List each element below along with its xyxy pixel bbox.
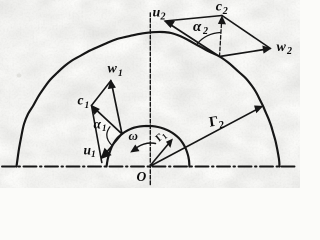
label r1 rotated	[154, 129, 169, 145]
svg-text:2: 2	[202, 26, 208, 37]
svg-text:1: 1	[91, 150, 96, 160]
wire u1 vector from P1 tangential	[106, 134, 123, 154]
svg-text:α: α	[94, 117, 102, 132]
radius arrow r1	[150, 143, 170, 167]
parallelogram edge A to B	[165, 16, 222, 22]
wire c1 vector diagonal P1 to L	[96, 109, 123, 134]
vertical dashed line through O	[149, 13, 151, 186]
svg-text:w: w	[108, 62, 118, 77]
svg-text:c: c	[216, 0, 223, 15]
svg-text:1: 1	[85, 101, 90, 111]
svg-text:α: α	[193, 19, 202, 35]
parallelogram edge B to C	[222, 16, 271, 49]
outer arc radius r2 circle	[17, 32, 280, 167]
svg-text:1: 1	[102, 123, 107, 133]
svg-text:1: 1	[118, 69, 123, 79]
svg-text:u: u	[153, 6, 161, 21]
svg-text:O: O	[137, 169, 147, 184]
parallelogram edge T to L	[92, 81, 112, 106]
wire w2 vector P2 to C	[220, 49, 266, 56]
wire w1 vector P1 to T	[112, 86, 122, 135]
horizontal dash-dot centerline axis	[2, 166, 297, 168]
inner arc radius r1 circle	[107, 126, 190, 167]
angle arc alpha1	[107, 127, 113, 146]
dashed c2 vector P2 to B	[220, 22, 222, 57]
svg-text:w: w	[277, 40, 287, 55]
svg-text:c: c	[78, 93, 84, 108]
radius arrow r2	[150, 110, 256, 167]
faint scan smudge	[17, 74, 22, 78]
parallelogram edge L to U	[92, 106, 102, 163]
svg-text:ω: ω	[129, 128, 138, 143]
angle arc alpha2	[198, 33, 221, 44]
svg-text:2: 2	[222, 6, 228, 17]
svg-text:2: 2	[160, 12, 166, 23]
wire u2 vector P2 to A	[170, 24, 220, 57]
omega rotation arc arrow	[134, 143, 156, 150]
svg-text:2: 2	[286, 46, 292, 57]
label r2	[208, 113, 225, 133]
